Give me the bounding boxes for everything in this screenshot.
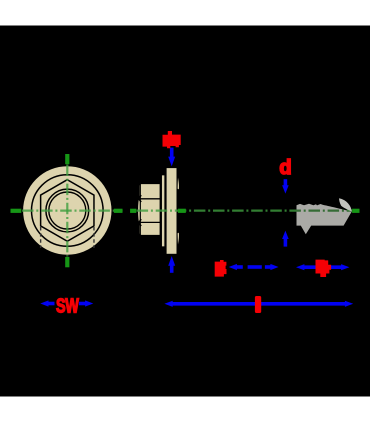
side view: facet notch lower xyxy=(136,219,141,226)
side view: hex head body xyxy=(137,183,160,235)
dim head-height: up arrow xyxy=(168,256,175,273)
dim SW arrows xyxy=(40,300,93,306)
centerline bar bottom xyxy=(65,257,69,267)
side view: washer lip plate xyxy=(161,175,165,247)
side view: hex facet line lower xyxy=(139,221,160,223)
front view: washer inner circle xyxy=(32,175,104,247)
svg-text:d: d xyxy=(279,157,291,179)
centerline dark dashes over drill point xyxy=(22,210,352,212)
bottom white band xyxy=(0,397,370,423)
centerline gap cover xyxy=(123,207,131,214)
front view: inner circle 2 xyxy=(49,192,86,229)
drill point flute fin xyxy=(339,198,352,211)
centerline end bar right xyxy=(352,209,359,213)
dim d: down arrow xyxy=(282,179,289,193)
centerline bar mid A xyxy=(114,209,123,213)
dim d: up arrow xyxy=(282,231,289,247)
centerline end bar left xyxy=(11,209,22,213)
side view: hex facet line upper xyxy=(139,198,160,200)
side view: facet notch upper xyxy=(136,195,141,202)
front view: washer flange outer circle xyxy=(22,166,112,256)
horizontal centerline xyxy=(22,210,352,212)
centerline bar right of washer xyxy=(178,209,186,213)
dim P line with arrows xyxy=(229,264,279,270)
label head height (red blob) xyxy=(163,131,181,148)
drill point body xyxy=(297,204,352,235)
side view: flange face edge streak bottom xyxy=(178,233,179,245)
dim head-height: down arrow xyxy=(168,148,175,167)
svg-text:SW: SW xyxy=(56,294,79,317)
side view: flange slab xyxy=(166,167,177,254)
top white band xyxy=(0,0,370,26)
vertical centerline xyxy=(66,165,68,257)
side view: flange face edge streak top xyxy=(178,178,179,190)
front view: inner circle 1 xyxy=(46,189,89,232)
front view: hidden edge dashed line right xyxy=(93,227,95,248)
centerline bar top xyxy=(65,154,69,164)
label l (red bar) xyxy=(255,296,261,313)
centerline bar mid B xyxy=(130,209,136,213)
dim b line with arrows xyxy=(296,264,350,270)
label P (red blob) xyxy=(215,260,227,277)
dim l line with arrows xyxy=(164,301,353,307)
side view: hex head inner edge line xyxy=(139,184,141,235)
front view: hidden edge dashed line left xyxy=(40,227,42,248)
label b (red blob) xyxy=(316,260,332,277)
front view: hexagon xyxy=(41,180,94,242)
